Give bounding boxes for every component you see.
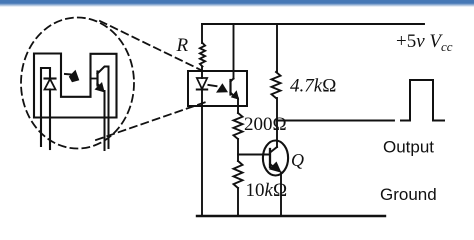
transistor Q emitter with arrow — [269, 162, 282, 217]
svg-text:Output: Output — [383, 138, 434, 157]
wire top rail — [202, 23, 424, 25]
resistor 10kΩ zigzag — [234, 161, 243, 188]
wire 200Ω to node — [237, 139, 239, 161]
wire 10kΩ to ground rail — [237, 188, 239, 216]
phototransistor (optocoupler): base bar — [229, 80, 231, 95]
upper leader dashed line — [100, 21, 202, 71]
wire 4.7k branch top — [276, 24, 278, 72]
wire R branch top — [201, 24, 203, 43]
light arrow (optocoupler) — [208, 83, 228, 92]
slotted package outline — [34, 54, 117, 118]
phototransistor (package): emitter lead with arrow — [95, 82, 105, 150]
LED (optocoupler): triangle — [197, 78, 207, 89]
lower leader dashed line — [96, 102, 206, 140]
wire base node to transistor — [238, 154, 270, 156]
pulse waveform glyph — [401, 80, 444, 121]
phototransistor (package): collector lead — [98, 67, 109, 149]
optocoupler U1 box — [188, 71, 247, 106]
LED (package): triangle — [45, 79, 56, 90]
wire bottom ground rail — [197, 215, 385, 217]
LED (optocoupler): cathode bar — [197, 89, 207, 91]
svg-text:R: R — [176, 35, 189, 56]
LED (package): cathode bar — [45, 77, 56, 79]
resistor R zigzag — [200, 43, 205, 67]
svg-text:200Ω: 200Ω — [244, 114, 287, 135]
wire 4.7k to output node and collector — [276, 98, 278, 147]
wire R branch bottom — [201, 67, 203, 72]
svg-text:Ground: Ground — [380, 185, 437, 204]
wire collector branch (optocoupler) — [233, 24, 235, 79]
resistor 200Ω zigzag — [234, 113, 243, 139]
phototransistor (optocoupler): collector bend — [231, 79, 234, 82]
svg-text:Q: Q — [291, 150, 304, 170]
transistor Q circle — [263, 141, 288, 176]
phototransistor (package): base tick from slot wall — [91, 78, 98, 80]
LED (optocoupler): bottom wire to ground rail — [201, 90, 203, 217]
transistor Q base bar — [269, 149, 271, 167]
LED (optocoupler): top wire — [201, 71, 203, 78]
LED (package): cathode lead bent wire — [41, 68, 50, 146]
LED (package): anode lead — [49, 90, 51, 150]
phototransistor (optocoupler): emitter with arrow — [231, 90, 240, 113]
top blue header bar — [0, 0, 474, 7]
dashed ellipse callout — [21, 18, 134, 149]
wire output — [277, 120, 394, 122]
light arrow (package) — [65, 70, 79, 83]
transistor Q collector bend — [270, 147, 277, 153]
resistor 4.7kΩ zigzag — [272, 72, 281, 98]
svg-text:10kΩ: 10kΩ — [246, 180, 288, 201]
phototransistor (package): base bar — [96, 72, 98, 86]
svg-text:4.7kΩ: 4.7kΩ — [290, 76, 336, 97]
